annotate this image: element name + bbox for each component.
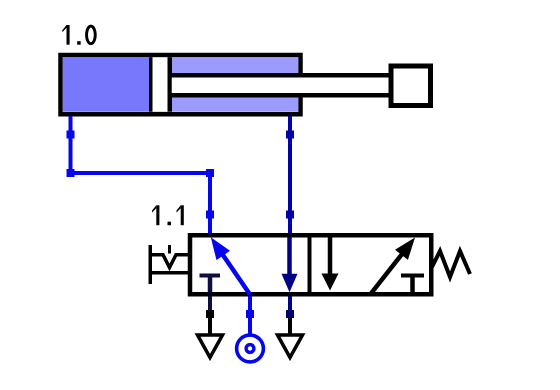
exhaust triangle R2: [278, 335, 303, 358]
rod end block: [391, 66, 431, 106]
return spring (right): [432, 251, 471, 277]
exhaust stub R2: [288, 296, 292, 313]
label 1.1: [152, 205, 184, 225]
flow arrow A to exhaust (black down, right box): [328, 237, 333, 278]
cylinder right chamber: [172, 57, 299, 112]
junction dot (corner): [67, 169, 75, 177]
wire down to valve port A: [208, 171, 212, 237]
valve position divider: [308, 234, 312, 295]
supply stub P: [248, 296, 252, 335]
junction dot (corner): [206, 169, 214, 177]
junction dot: [286, 131, 294, 139]
junction dot: [67, 131, 75, 139]
manual actuator with detent (left): [149, 245, 153, 284]
exhaust triangle R1: [198, 335, 223, 358]
blocked port T (left box): [200, 274, 221, 278]
label 1.0: [62, 25, 95, 45]
cylinder 1.0 body: [61, 55, 301, 114]
wire horizontal run: [69, 171, 213, 175]
piston rod: [172, 78, 391, 94]
exhaust stub R1: [208, 296, 212, 311]
wire cylinder left port down: [69, 116, 73, 173]
junction dot: [206, 211, 214, 219]
piston: [149, 57, 172, 112]
flow arrow B to exhaust (navy down, left box): [287, 237, 292, 278]
flow arrow P to B (black diagonal, right box): [371, 251, 405, 294]
wire cylinder right port to valve port B: [288, 116, 292, 237]
junction dot: [286, 211, 294, 219]
flow arrow P to A (blue diagonal, left box): [220, 251, 250, 294]
blocked port T (right box): [401, 274, 424, 278]
valve 1.1 body: [190, 235, 431, 294]
cylinder left chamber (pressurized): [63, 57, 149, 112]
compressed air source: [237, 335, 264, 362]
